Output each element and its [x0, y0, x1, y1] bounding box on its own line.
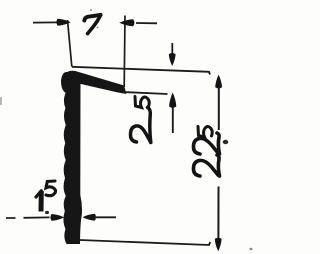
- digit 2: [130, 126, 150, 142]
- dimension 2.5: bottom arrow (up): [172, 106, 174, 133]
- dimension 7: left arrowhead: [56, 19, 70, 26]
- digit 5 superscript: [198, 127, 212, 138]
- wire: top extension line right (x~125): [123, 16, 126, 88]
- label 22^5 (rotated): [193, 127, 219, 177]
- profile: corner blob: [61, 72, 74, 93]
- wire: bottom extension line L3: [80, 240, 210, 245]
- speck near 22^5: [223, 140, 229, 144]
- dimension 1.5: right arrow: [96, 216, 116, 218]
- digit 2 (second): [193, 138, 218, 154]
- dimension 7: right arrow line: [136, 22, 157, 24]
- speck bottom right: [250, 248, 253, 250]
- dimension 7: left arrow line: [33, 21, 57, 23]
- digit 2 (first): [193, 160, 218, 176]
- wire: horizontal extension line L2 (flange end level): [123, 92, 168, 94]
- wire: horizontal extension line L1 (top level, slight slope): [72, 67, 210, 75]
- dimension 22.5: upper stem with up arrowhead: [218, 88, 220, 130]
- label 2^5 (rotated): [130, 97, 150, 143]
- wire: top extension line left (x~67..72): [68, 20, 72, 67]
- profile: top flange (thick slanted bar): [63, 71, 127, 94]
- digit 5 superscript: [135, 97, 149, 108]
- dimension 2.5: top arrow (down): [171, 43, 173, 55]
- dimension 1.5: label 5 superscript: [46, 181, 56, 196]
- dimension 1.5: label 1: [36, 191, 41, 197]
- dimension 22.5: lower stem with down arrowhead: [217, 187, 219, 239]
- speck right of 7: [97, 27, 99, 29]
- dimension 7: right arrowhead: [119, 19, 134, 26]
- speck above 7: [90, 9, 92, 11]
- dimension 1.5: left arrow: [6, 217, 16, 219]
- label 7: [84, 15, 100, 21]
- speck near label 1: [45, 211, 49, 214]
- profile: vertical leg: [63, 74, 82, 244]
- speck left edge: [0, 97, 2, 105]
